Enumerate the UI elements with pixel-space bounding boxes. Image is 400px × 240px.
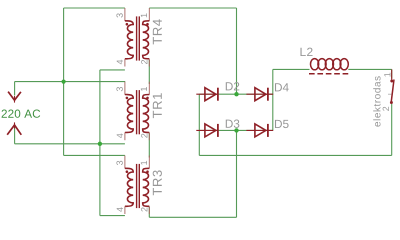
transformer TR4 <box>125 8 149 67</box>
label 220 AC <box>2 110 41 118</box>
label TR3 pin 2 <box>141 207 147 211</box>
label TR4 pin 2 <box>141 60 147 64</box>
secondary winding <box>143 21 150 59</box>
pin 2 stub <box>148 59 150 67</box>
wire TR3 pin2 down <box>148 207 150 218</box>
wire TR4 pin2 to TR1 pin1 <box>148 60 150 84</box>
polarity dot left <box>126 23 129 26</box>
transformer TR1 <box>125 82 149 141</box>
core line left <box>136 164 138 208</box>
wire diode row 1 <box>199 93 272 95</box>
wire anode rail D2-D3 <box>198 94 200 155</box>
label TR4 pin 4 <box>117 60 123 65</box>
wire AC2 to TR1 pin4 <box>15 143 125 145</box>
AC source arrow top <box>8 92 21 103</box>
wire secondary top rail down to D2-D4 row <box>236 8 238 94</box>
wire cathode rail D4-D5 up to L2 <box>272 69 274 130</box>
secondary winding <box>143 168 150 206</box>
wire TR4 pin1 to right rail <box>149 7 236 9</box>
label ref TR1 <box>153 93 162 118</box>
pin 3 stub <box>124 156 126 169</box>
pin 1 stub <box>148 8 150 21</box>
label elektrodas <box>373 76 380 126</box>
polarity dot right <box>146 170 149 173</box>
primary winding <box>125 95 133 133</box>
label elektrodas pin 2 <box>383 107 389 111</box>
polarity dot left <box>126 170 129 173</box>
junction dot at D3-D5 row <box>234 128 238 132</box>
label TR3 pin 3 <box>116 161 122 165</box>
pin 2 pad dot <box>390 101 393 104</box>
label D4 <box>275 83 289 91</box>
pin 2 stub <box>148 133 150 141</box>
wire AC2 rail to TR4 pin4 <box>100 69 125 71</box>
wire TR3 pin2 to right rail <box>149 216 236 218</box>
wire AC2 rail to TR3 pin4 <box>100 215 125 217</box>
label D5 <box>275 120 289 128</box>
wire AC bottom terminal stub <box>14 127 16 144</box>
label TR3 pin 1 <box>141 161 147 165</box>
label TR1 pin 3 <box>116 87 122 91</box>
label TR4 pin 3 <box>116 13 122 17</box>
label TR1 pin 4 <box>117 133 123 138</box>
wire TR1 pin2 to TR3 pin1 <box>148 133 150 158</box>
primary winding <box>125 168 133 206</box>
diode D4 <box>246 88 273 101</box>
label elektrodas pin 1 <box>384 73 390 77</box>
inductor L2 <box>309 59 349 74</box>
wire output bottom to elektrodas <box>199 154 391 156</box>
wire secondary bottom rail up to D3-D5 row <box>236 130 238 217</box>
pin 1 pad dot <box>390 80 393 83</box>
junction dot at D2-D4 row <box>234 92 238 96</box>
polarity dot right <box>146 97 149 100</box>
pin 4 stub <box>124 133 126 141</box>
label ref TR3 <box>153 170 162 195</box>
pin 1 stub <box>148 82 150 95</box>
core line right <box>138 90 140 134</box>
polarity dot left <box>126 97 129 100</box>
pin 2 stub <box>148 206 150 214</box>
diode D5 <box>246 124 273 137</box>
junction dot at AC2 rail <box>98 142 102 146</box>
core line right <box>138 16 140 60</box>
wire elektrodas pin1 stub <box>391 69 393 78</box>
label L2 <box>300 48 312 56</box>
label D3 <box>226 120 240 128</box>
contact lever <box>391 80 394 102</box>
wire AC top terminal stub <box>14 82 16 96</box>
pin 3 stub <box>124 8 126 21</box>
pin 1 stub <box>148 156 150 169</box>
label TR1 pin 2 <box>141 134 147 138</box>
wire AC1 to TR1 pin3 <box>15 81 126 83</box>
core line right <box>138 164 140 208</box>
connector elektrodas <box>388 69 394 104</box>
pin 4 stub <box>124 206 126 214</box>
wire diode row 2 <box>199 129 272 131</box>
wire to L2 left <box>273 68 310 70</box>
diode D3 <box>196 124 218 137</box>
small tick <box>388 93 391 95</box>
pin 1 line <box>391 69 393 79</box>
label TR3 pin 4 <box>117 207 123 212</box>
polarity dot right <box>146 23 149 26</box>
label TR1 pin 1 <box>141 87 147 91</box>
wire L2 right to elektrodas pin1 <box>348 68 391 70</box>
transformer TR3 <box>125 156 149 215</box>
pin 3 stub <box>124 82 126 95</box>
pin 4 stub <box>124 59 126 67</box>
primary winding <box>125 21 133 59</box>
label D2 <box>226 82 240 90</box>
AC source arrow bottom <box>7 122 21 134</box>
diode D2 <box>196 88 218 101</box>
wire AC1 to TR3 pin3 <box>64 154 125 156</box>
label TR4 pin 1 <box>141 13 147 17</box>
core dashed line <box>309 73 349 75</box>
label ref TR4 <box>153 19 162 44</box>
core line left <box>136 16 138 60</box>
core line left <box>136 90 138 134</box>
wire AC1 left vertical rail <box>63 8 65 155</box>
wire AC1 top horizontal to TR4 pin3 <box>64 7 125 9</box>
secondary winding <box>143 95 150 133</box>
junction dot at AC1 rail <box>62 80 66 84</box>
wire AC2 middle vertical rail <box>99 70 101 216</box>
wire elektrodas pin2 down <box>391 104 393 155</box>
